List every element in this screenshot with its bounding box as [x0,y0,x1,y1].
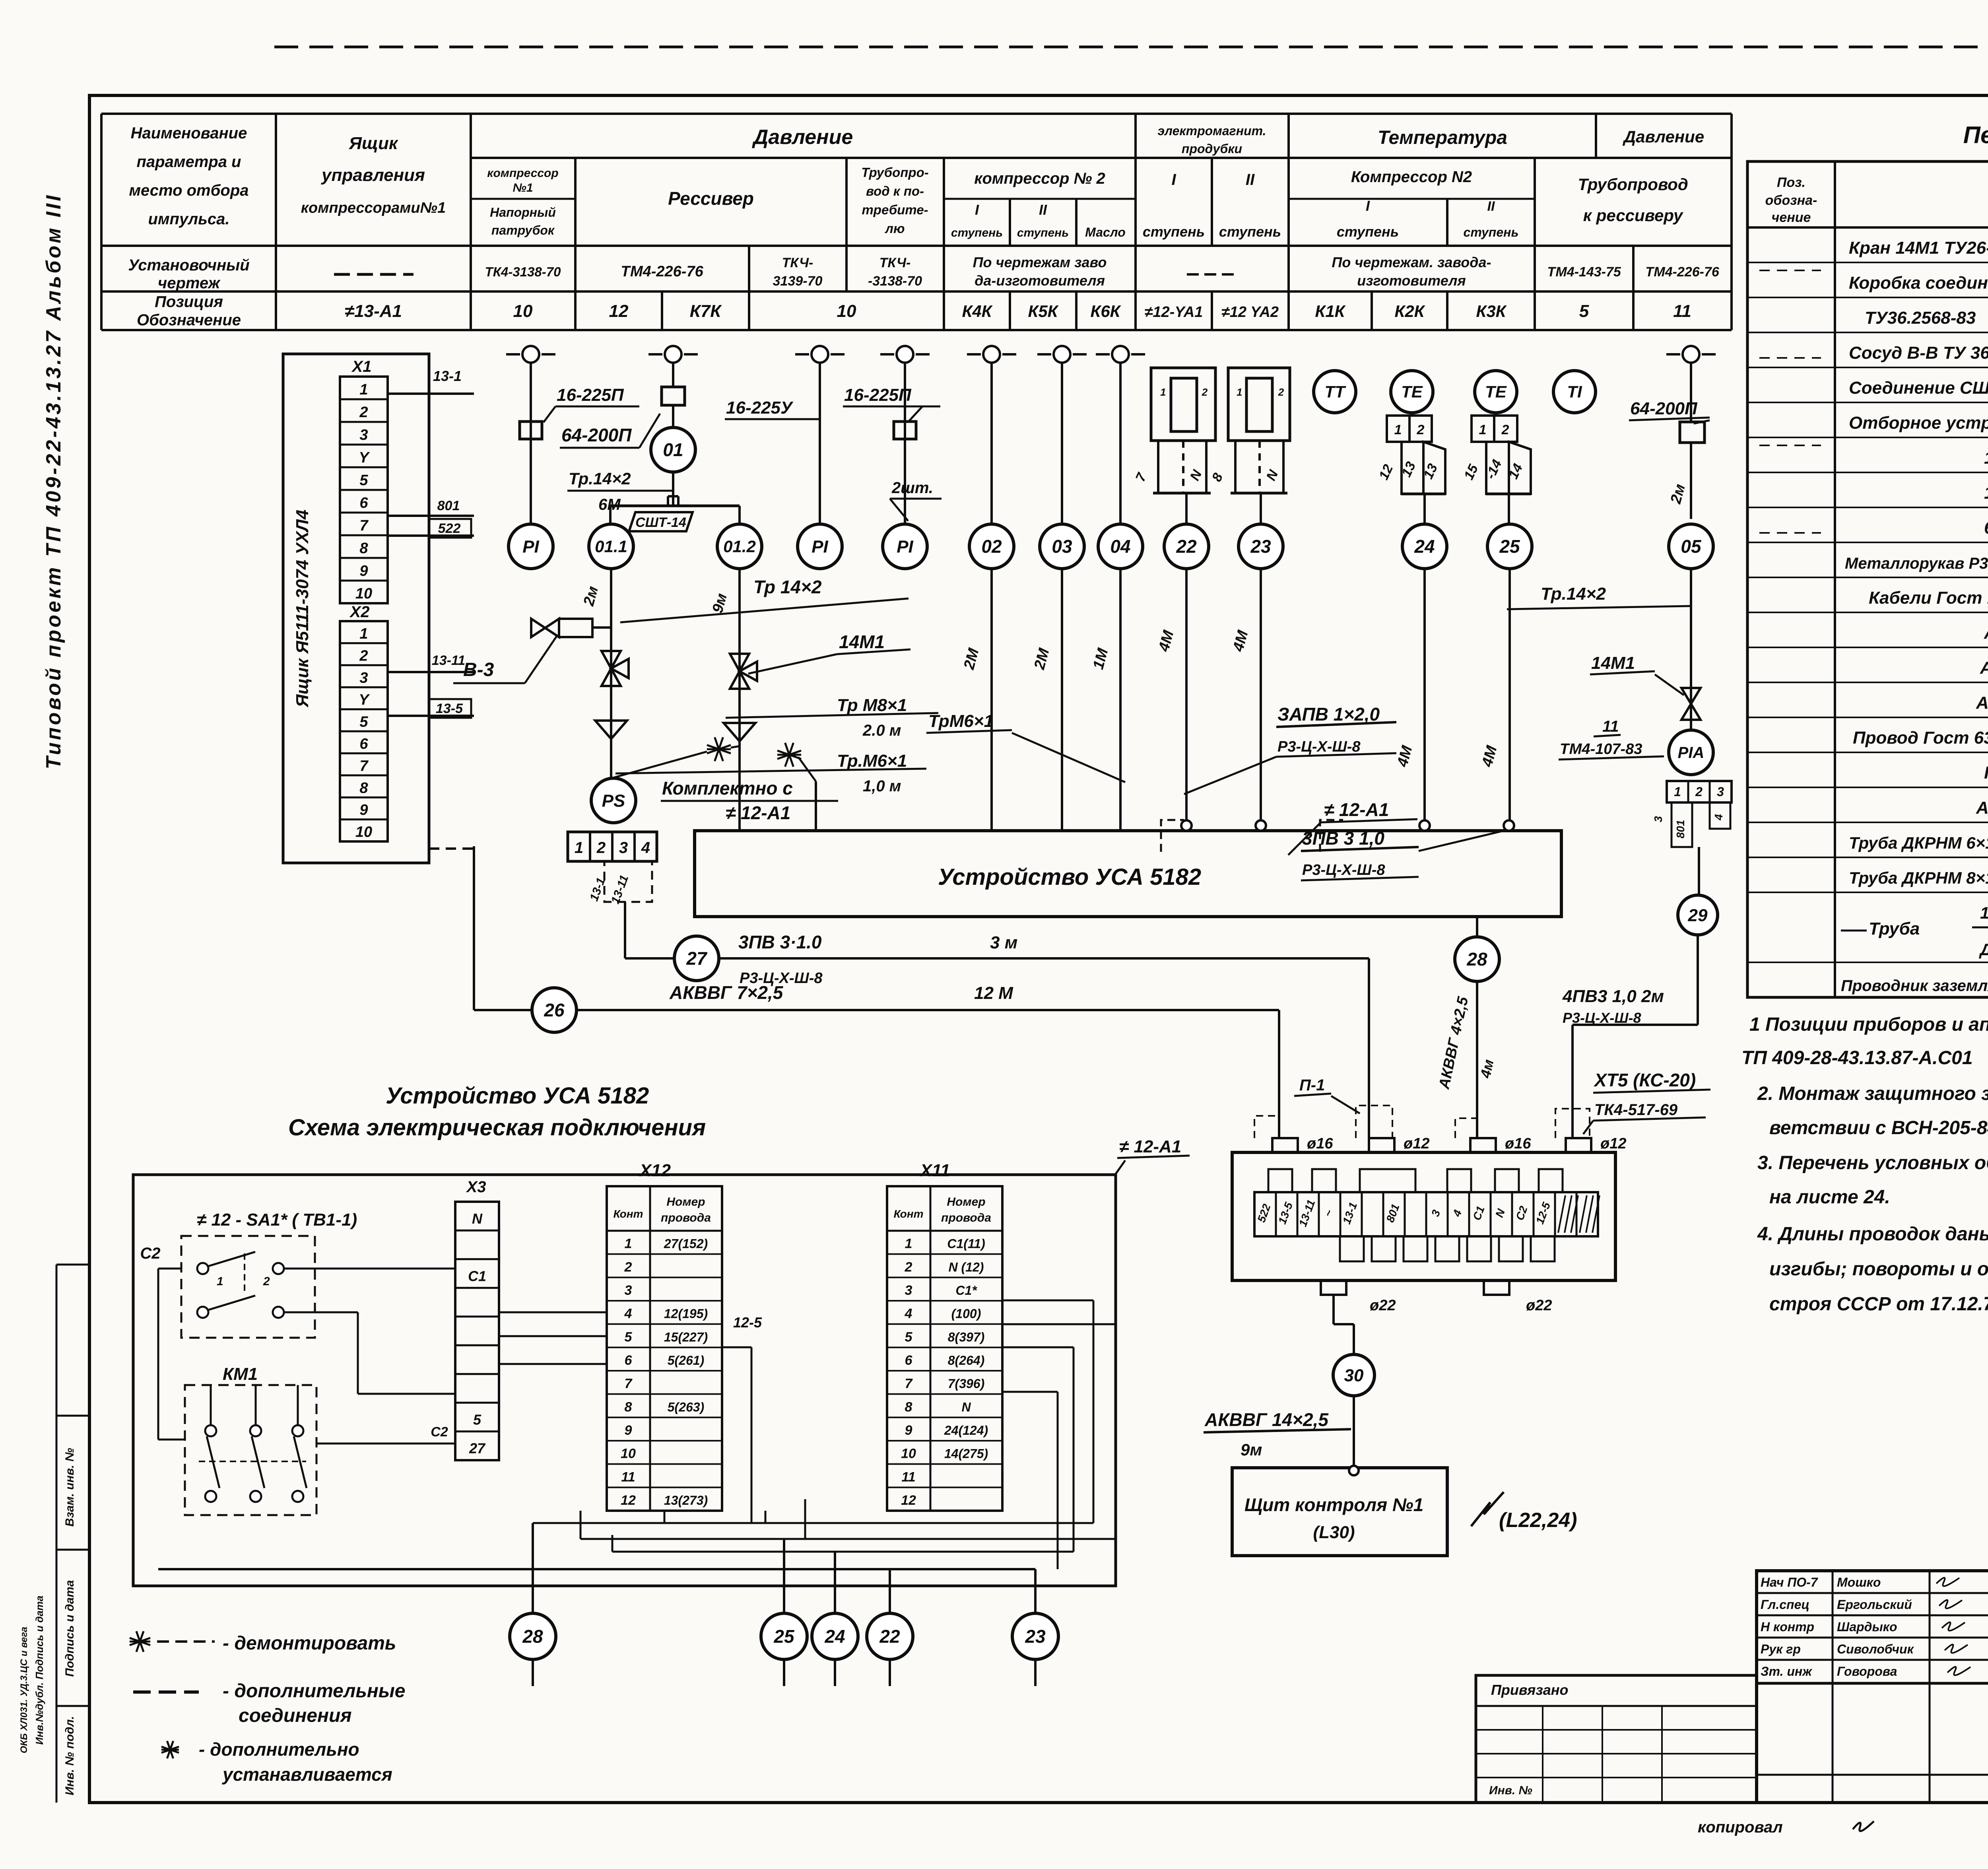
junction box body [1232,1152,1615,1280]
svg-text:ø16: ø16 [1505,1135,1531,1152]
svg-text:место отбора: место отбора [129,182,248,199]
circle 29 [1678,895,1718,935]
svg-text:- дополнительно: - дополнительно [199,1739,359,1760]
svg-text:6: 6 [359,736,368,752]
svg-text:АКВВГ 4 ×2,5: АКВВГ 4 ×2,5 [1984,623,1988,643]
heater square symbol 2 [1228,368,1290,441]
svg-text:II: II [1039,202,1047,218]
svg-text:10: 10 [901,1446,916,1461]
chain 05 down [1690,443,1692,519]
svg-text:≠12 YA2: ≠12 YA2 [1221,304,1279,321]
svg-text:2: 2 [905,1259,912,1274]
svg-text:1,0 м: 1,0 м [863,777,901,795]
svg-text:5: 5 [359,714,368,731]
svg-text:I: I [1366,198,1370,214]
KM1 contactor box [185,1385,316,1515]
svg-text:23: 23 [1250,536,1271,557]
svg-text:требите-: требите- [862,202,928,217]
svg-text:Устройство УСА 5182: Устройство УСА 5182 [938,864,1201,890]
svg-text:9: 9 [359,563,368,579]
svg-text:04: 04 [1110,536,1130,557]
funnel chain 01.2 [724,723,755,741]
svg-text:≠ 12-А1: ≠ 12-А1 [1119,1137,1181,1156]
bottom circle 28 [510,1613,556,1659]
svg-text:10: 10 [355,824,372,841]
svg-text:3: 3 [905,1283,912,1298]
legend дополнительные соединения [133,1690,199,1694]
junction box terminal strip [1254,1192,1598,1236]
svg-text:провода: провода [941,1211,991,1224]
svg-text:обозна-: обозна- [1765,193,1817,208]
svg-text:К7К: К7К [690,301,722,321]
svg-text:ЗАПВ 1×2,0: ЗАПВ 1×2,0 [1277,704,1380,725]
svg-text:4: 4 [905,1306,912,1321]
wires bottom mesh [722,1346,751,1348]
svg-text:ТМ4-226-76: ТМ4-226-76 [1645,264,1720,280]
svg-text:7: 7 [905,1376,913,1391]
svg-text:ХТ5 (КС-20): ХТ5 (КС-20) [1593,1070,1696,1090]
svg-text:ступень: ступень [1337,223,1399,240]
svg-text:Говорова: Говорова [1837,1664,1897,1679]
svg-text:02: 02 [981,536,1002,557]
щит контроля box [1232,1468,1447,1556]
svg-text:Х3: Х3 [466,1178,486,1196]
svg-text:11: 11 [901,1469,915,1484]
svg-text:5: 5 [1579,301,1589,321]
svg-text:I: I [975,202,979,218]
svg-text:Сосуд В-В ТУ 36.1Р62-80: Сосуд В-В ТУ 36.1Р62-80 [1849,343,1988,363]
svg-text:лю: лю [884,221,905,236]
svg-text:Трубопро-: Трубопро- [861,165,928,180]
legend демонтировать [130,1638,150,1645]
wire 28 from USA box [1476,917,1478,937]
svg-text:Ящик Я5111-3074 УХЛ4: Ящик Я5111-3074 УХЛ4 [293,510,312,708]
svg-text:провода: провода [661,1211,711,1224]
svg-text:6: 6 [625,1353,633,1368]
svg-text:5: 5 [905,1329,913,1344]
svg-text:ступень: ступень [1143,223,1205,240]
instrument 01 [672,405,674,427]
svg-text:16-225 П: 16-225 П [1984,448,1988,468]
svg-text:ТК4-3138-70: ТК4-3138-70 [485,264,561,279]
svg-text:Тр 14×2: Тр 14×2 [753,577,822,597]
svg-text:Коробка соединительная КС-20: Коробка соединительная КС-20 [1849,273,1988,293]
svg-text:4ПВ3 1,0 2м: 4ПВ3 1,0 2м [1562,987,1664,1006]
svg-text:К6К: К6К [1091,302,1122,321]
svg-text:параметра и: параметра и [137,153,241,171]
svg-text:16-225У: 16-225У [726,398,794,418]
svg-text:1: 1 [625,1236,632,1251]
SA1 switch box [181,1236,315,1338]
svg-text:Схема электрическая подклю: Схема электрическая подключения [288,1115,706,1140]
svg-text:К4К: К4К [962,302,993,321]
funnel chain 01.1 [595,721,627,739]
svg-text:на листе 24.: на листе 24. [1769,1187,1890,1208]
svg-text:3139-70: 3139-70 [773,274,823,289]
svg-text:ø12: ø12 [1404,1135,1429,1152]
svg-text:С1(11): С1(11) [947,1237,985,1251]
svg-text:3: 3 [359,670,368,686]
TE1 terminal 1-2 and tags [1387,416,1409,442]
svg-text:≠ 12-А1: ≠ 12-А1 [726,802,790,823]
svg-text:Обозначение: Обозначение [137,311,241,329]
svg-text:4: 4 [624,1306,632,1321]
svg-text:АКВВГ 7×2,5: АКВВГ 7×2,5 [669,982,784,1003]
svg-text:2.0 м: 2.0 м [862,722,901,739]
svg-text:Привязано: Привязано [1491,1682,1568,1698]
svg-text:Щит контроля №1: Щит контроля №1 [1244,1494,1423,1515]
chain 01.1 down [610,569,612,778]
svg-text:5: 5 [473,1411,481,1428]
bottom circle 24 [812,1613,858,1659]
svg-text:Ящик: Ящик [349,134,399,153]
svg-text:Y: Y [359,449,370,466]
bottom-left margin boxes [56,1265,58,1803]
breaker mark and L22-24 [1471,1492,1504,1526]
svg-text:3: 3 [359,427,368,443]
svg-text:3 м: 3 м [990,933,1017,952]
svg-text:26: 26 [544,1000,565,1020]
svg-text:12-5: 12-5 [733,1314,762,1331]
svg-text:14М1: 14М1 [1591,653,1635,673]
svg-text:ТЕ: ТЕ [1401,383,1423,401]
svg-text:управления: управления [321,165,425,185]
valve box chain2 [662,387,685,405]
svg-text:5(261): 5(261) [668,1353,705,1368]
svg-text:КМ1: КМ1 [223,1364,258,1384]
svg-text:24: 24 [1414,536,1435,557]
svg-text:2: 2 [596,839,606,857]
svg-text:ТТ: ТТ [1324,383,1346,401]
svg-text:ТМ4-226-76: ТМ4-226-76 [621,263,703,280]
svg-text:Провод Гост 6323-79: Провод Гост 6323-79 [1853,728,1988,748]
valve box 16-225П chain1 [520,422,542,439]
svg-text:РI: РI [897,537,913,556]
svg-text:25: 25 [773,1626,795,1647]
svg-text:электромагнит.: электромагнит. [1157,124,1266,138]
svg-text:2: 2 [263,1275,270,1288]
wire C2 left [158,1268,181,1270]
svg-text:01: 01 [663,439,683,460]
svg-text:N: N [472,1210,483,1227]
svg-text:1: 1 [1479,422,1487,437]
terminal box 1-4 under PS [568,832,657,861]
svg-text:3: 3 [619,839,628,857]
svg-text:Р3-Ц-Х-Ш-8: Р3-Ц-Х-Ш-8 [1277,738,1361,755]
svg-text:1: 1 [1160,386,1166,398]
svg-text:64-200П: 64-200П [1984,518,1988,538]
svg-text:Тр.М6×1: Тр.М6×1 [837,751,907,771]
title block grid [1757,1571,1988,1803]
svg-text:строя СССР от 17.12.79: строя СССР от 17.12.79 №89:Д [1769,1294,1988,1315]
svg-text:≠12-YA1: ≠12-YA1 [1145,304,1203,321]
wires X11 right side [1002,1300,1093,1302]
svg-text:5: 5 [359,472,368,489]
svg-text:Взам. инв. №: Взам. инв. № [63,1448,76,1527]
svg-text:С2: С2 [431,1424,448,1440]
terminal box 1-3 under PIA [1667,781,1732,802]
svg-text:АКВВГ 14×2,5: АКВВГ 14×2,5 [1204,1409,1329,1430]
svg-text:Р3-Ц-Х-Ш-8: Р3-Ц-Х-Ш-8 [1302,862,1385,878]
sampling device taps row [522,346,539,363]
svg-text:15(227): 15(227) [664,1330,708,1344]
valve chain 01.2 [739,671,740,672]
svg-text:РI: РI [812,537,828,556]
svg-text:изготовителя: изготовителя [1357,272,1466,289]
svg-text:По чертежам. завода-: По чертежам. завода- [1332,254,1491,270]
svg-text:8: 8 [625,1399,632,1414]
СШТ-14 manifold [610,505,740,507]
svg-text:Н контр: Н контр [1761,1620,1814,1634]
svg-text:По чертежам заво: По чертежам заво [973,254,1107,270]
svg-text:1: 1 [359,381,368,398]
svg-text:Соединение СШТ 14: Соединение СШТ 14 [1849,378,1988,398]
svg-text:РS: РS [602,791,625,810]
svg-text:7: 7 [359,758,369,774]
wire to pos 27 [624,902,626,958]
svg-text:2: 2 [359,404,368,421]
svg-text:Типовой проект ТП 409-22-43.: Типовой проект ТП 409-22-43.13.27 Альбом… [42,193,65,769]
svg-text:АПВ 1 × 2,0 380: АПВ 1 × 2,0 380 [1976,798,1988,818]
svg-text:16-225П: 16-225П [557,385,624,405]
svg-text:11: 11 [621,1469,635,1484]
three-way valve chain 01.1 [611,668,612,669]
svg-text:ø12: ø12 [1600,1135,1626,1152]
svg-text:27: 27 [469,1440,486,1457]
svg-text:Давление: Давление [1623,127,1704,146]
svg-text:Инв. № подл.: Инв. № подл. [63,1716,76,1795]
chain 01.2 down [738,569,741,831]
svg-text:ТЕ: ТЕ [1485,383,1507,401]
svg-text:03: 03 [1052,536,1072,557]
svg-text:соединения: соединения [239,1705,352,1726]
svg-text:- демонтировать: - демонтировать [223,1633,396,1654]
svg-text:Комплектно с: Комплектно с [662,778,793,799]
svg-text:28: 28 [522,1626,543,1647]
svg-text:ТКЧ-: ТКЧ- [782,255,813,270]
svg-text:Нач ПО-7: Нач ПО-7 [1761,1575,1819,1589]
svg-text:Гл.спец: Гл.спец [1761,1597,1809,1612]
svg-text:27: 27 [686,948,708,969]
svg-text:(100): (100) [951,1307,981,1321]
junction box bottom stubs [1321,1280,1346,1295]
svg-text:2: 2 [1278,386,1284,398]
svg-text:(L30): (L30) [1313,1523,1355,1542]
svg-text:2: 2 [1202,386,1208,398]
big schema box [133,1175,1116,1586]
svg-text:13(273): 13(273) [664,1493,708,1508]
svg-text:I: I [1171,171,1176,188]
svg-text:Компрессор N2: Компрессор N2 [1351,168,1472,186]
svg-text:7: 7 [359,517,369,534]
USA box top terminals [1181,820,1192,831]
svg-text:16-225У: 16-225У [1984,483,1988,503]
svg-text:8(264): 8(264) [948,1353,985,1368]
svg-text:14×2 Гост 8734 ×75*: 14×2 Гост 8734 ×75* [1980,903,1988,922]
svg-text:2: 2 [359,647,368,664]
svg-text:ПВ3 1.0 380: ПВ3 1.0 380 [1984,763,1988,783]
TT TE TE TI circles [1314,371,1356,413]
svg-text:ТI: ТI [1567,383,1582,401]
svg-text:Шардыко: Шардыко [1837,1620,1897,1634]
valve 14М1 on chain 05 [1681,688,1701,720]
F shield marks [1161,820,1184,852]
svg-text:П-1: П-1 [1299,1076,1325,1094]
svg-text:12: 12 [609,301,629,321]
svg-text:Д20 Гост 8733 × 74*: Д20 Гост 8733 × 74* [1979,940,1988,959]
ящик left wire to 26 [473,846,475,1010]
svg-text:ø22: ø22 [1526,1297,1552,1314]
svg-text:С1*: С1* [955,1283,977,1298]
svg-text:64-200П: 64-200П [561,425,632,445]
svg-text:Температура: Температура [1378,127,1507,148]
svg-text:Тр М8×1: Тр М8×1 [837,696,907,715]
svg-text:патрубок: патрубок [491,223,555,237]
svg-text:Сиволобчик: Сиволобчик [1837,1642,1914,1656]
svg-text:АКВВГ 7 × 2,5: АКВВГ 7 × 2,5 [1980,658,1988,678]
svg-text:12: 12 [901,1493,916,1508]
svg-text:29: 29 [1688,905,1708,925]
svg-text:6: 6 [359,495,368,511]
wire KM1 to X3 row9 [316,1443,429,1445]
PS instrument [591,778,636,823]
svg-text:10: 10 [513,301,533,321]
legend дополнительно устанавливается [161,1747,179,1752]
top parameter table grid [101,113,1732,115]
svg-text:-3138-70: -3138-70 [868,274,922,289]
svg-text:1: 1 [217,1275,223,1288]
svg-text:II: II [1487,199,1495,214]
svg-text:N (12): N (12) [949,1260,984,1274]
svg-text:3: 3 [625,1283,632,1298]
junction box upper stubs [1268,1169,1292,1192]
svg-text:С2: С2 [140,1245,160,1262]
circle 28 [1455,937,1499,981]
junction box lower hang cells [1340,1236,1364,1261]
wire 27 to junction box [719,957,1369,960]
svg-text:ТК4-517-69: ТК4-517-69 [1594,1101,1678,1119]
привязано block [1476,1675,1757,1803]
svg-text:1: 1 [1394,422,1402,437]
svg-text:13-1: 13-1 [433,368,462,384]
svg-text:3: 3 [1717,785,1724,799]
hang tag 13-1 13-11 [604,861,652,902]
svg-text:22: 22 [879,1626,900,1647]
svg-text:С1: С1 [468,1268,486,1284]
svg-text:Напорный: Напорный [490,205,556,220]
svg-text:4: 4 [1712,814,1725,821]
svg-text:ступень: ступень [1219,223,1281,240]
svg-text:13-5: 13-5 [436,701,463,716]
bottom circle 25 [761,1613,807,1659]
svg-text:Устройство УСА 5182: Устройство УСА 5182 [386,1083,649,1109]
svg-text:изгибы; повороты и отход: изгибы; повороты и отходы согласно письм… [1769,1259,1988,1280]
svg-text:Перечень элементов: Перечень элементов [1963,122,1988,148]
svg-text:ступень: ступень [1017,226,1069,239]
svg-text:2. Монтаж защитного зануле: 2. Монтаж защитного зануления выполнить … [1757,1083,1988,1104]
svg-text:05: 05 [1681,536,1702,557]
svg-text:10: 10 [621,1446,636,1461]
svg-text:Номер: Номер [666,1195,705,1208]
svg-text:7(396): 7(396) [948,1377,985,1391]
svg-text:1: 1 [905,1236,912,1251]
svg-text:Кабели Гост 1508-78*: Кабели Гост 1508-78* [1869,588,1988,608]
svg-text:Позиция: Позиция [155,293,223,311]
svg-text:14(275): 14(275) [944,1447,988,1461]
svg-text:чертеж: чертеж [158,274,221,292]
svg-text:Кран 14М1 ТУ26-07-1061-73: Кран 14М1 ТУ26-07-1061-73 [1849,238,1988,258]
svg-text:X11: X11 [919,1161,950,1180]
svg-text:≠ 12 - SА1* ( ТВ1-1): ≠ 12 - SА1* ( ТВ1-1) [197,1210,357,1230]
svg-text:28: 28 [1466,949,1487,969]
svg-text:801: 801 [1674,820,1687,839]
svg-text:ТМ4-143-75: ТМ4-143-75 [1547,264,1621,280]
svg-text:30: 30 [1344,1366,1364,1385]
svg-text:к рессиверу: к рессиверу [1583,206,1684,225]
svg-text:№1: №1 [513,181,533,194]
svg-text:801: 801 [437,498,460,513]
svg-text:3: 3 [1652,816,1664,822]
svg-text:Наименование: Наименование [131,124,247,142]
svg-text:ступень: ступень [1464,225,1519,239]
svg-text:Рук гр: Рук гр [1761,1642,1801,1656]
svg-text:3. Перечень условных обознач: 3. Перечень условных обозначении приведе… [1757,1152,1988,1173]
svg-text:24(124): 24(124) [944,1423,988,1438]
circle 30 [1333,1354,1375,1396]
svg-text:2: 2 [1695,785,1703,799]
svg-text:N: N [961,1400,971,1414]
TE2 terminal 1-2 and tags [1472,416,1494,442]
svg-text:8: 8 [905,1399,912,1414]
svg-text:К5К: К5К [1028,302,1059,321]
svg-text:01.1: 01.1 [595,537,627,556]
svg-text:64-200П: 64-200П [1630,399,1698,418]
svg-text:II: II [1246,171,1255,188]
svg-text:01.2: 01.2 [723,537,756,556]
svg-text:Тр.14×2: Тр.14×2 [569,469,631,488]
svg-text:3ПВ 3·1.0: 3ПВ 3·1.0 [738,932,822,952]
svg-text:да-изготовителя: да-изготовителя [975,272,1105,289]
valve box chain4 [894,422,916,439]
svg-text:СШТ-14: СШТ-14 [635,515,686,530]
svg-text:компрессор № 2: компрессор № 2 [974,170,1105,187]
svg-text:Труба ДКРНМ 6×1 НДМ3 Гост 617: Труба ДКРНМ 6×1 НДМ3 Гост 617-72 [1849,833,1988,852]
instrument PIA [1669,730,1713,775]
svg-text:22: 22 [1176,536,1197,557]
svg-text:Номер: Номер [947,1195,985,1208]
wire to 30 [1332,1295,1335,1324]
svg-text:АКВВГ 14 × 2,5: АКВВГ 14 × 2,5 [1976,693,1988,713]
svg-text:2: 2 [1417,422,1425,437]
svg-text:- дополнительные: - дополнительные [223,1681,406,1702]
svg-text:Поз.: Поз. [1777,175,1806,190]
svg-text:Ергольский: Ергольский [1837,1597,1912,1612]
svg-text:чение: чение [1772,210,1811,225]
svg-text:≠ 12-А1: ≠ 12-А1 [1324,799,1389,820]
svg-text:2: 2 [1501,422,1509,437]
svg-text:1: 1 [1674,785,1681,799]
svg-text:12: 12 [621,1493,636,1508]
wires from taps down [530,363,532,524]
svg-text:Инв.№дубл. Подпись и дата: Инв.№дубл. Подпись и дата [33,1595,45,1745]
svg-text:Металлорукав Р3-Ц-Х-Ш-8 ТУ22-5: Металлорукав Р3-Ц-Х-Ш-8 ТУ22-5570-83 [1845,555,1988,572]
sheet border frame [274,46,1988,49]
demontage cross marks [707,745,731,754]
wires SA1 to X3 [284,1268,455,1270]
svg-text:ОКБ ХЛ031. УД.3.ЦС и вега: ОКБ ХЛ031. УД.3.ЦС и вега [19,1627,29,1753]
wires 22 23 24 25 down to USA box [1185,569,1188,820]
svg-text:9: 9 [905,1423,912,1438]
